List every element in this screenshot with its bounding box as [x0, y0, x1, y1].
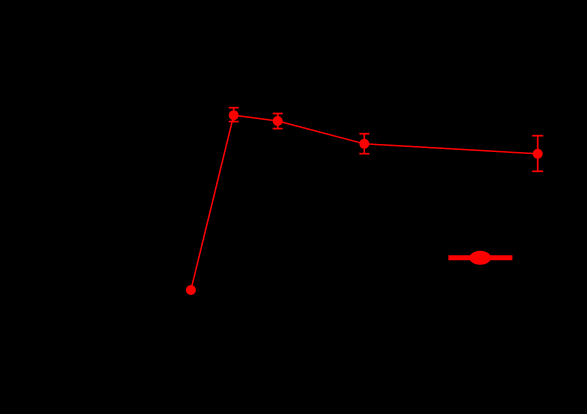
marker point 5: [533, 149, 543, 159]
error bar point 5: [532, 136, 543, 172]
legend sample marker (ellipse): [469, 251, 491, 265]
error bar point 2: [229, 108, 239, 122]
marker point 1: [186, 285, 196, 295]
marker point 4: [359, 139, 369, 149]
marker point 3: [273, 116, 283, 126]
error bar point 3: [273, 114, 283, 129]
error bar point 4: [359, 134, 369, 154]
marker point 2: [229, 110, 239, 120]
legend sample line: [448, 255, 512, 260]
data series line (red curve through 5 points): [191, 115, 538, 290]
